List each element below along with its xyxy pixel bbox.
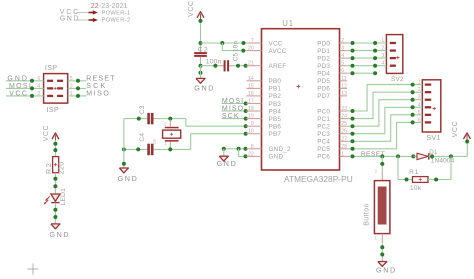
wire VCC to R2 bbox=[54, 140, 56, 156]
junction bbox=[430, 154, 434, 158]
wire button to GND bbox=[381, 243, 383, 261]
svg-text:MOSI: MOSI bbox=[222, 98, 244, 105]
junction bbox=[199, 19, 203, 23]
junction bbox=[53, 184, 57, 188]
wire down to ground bbox=[223, 149, 225, 156]
junction bbox=[411, 90, 415, 94]
svg-text:28: 28 bbox=[341, 144, 347, 150]
svg-text:7: 7 bbox=[251, 38, 254, 44]
pin 22 GND bbox=[246, 155, 261, 157]
junction bbox=[380, 245, 384, 249]
junction bbox=[411, 83, 415, 87]
wire jog to pin 9 bbox=[186, 119, 247, 127]
wire PC2 to SV1 pin 3 bbox=[347, 100, 422, 127]
SV2 pad 4 bbox=[390, 65, 396, 67]
capacitor C2 bbox=[200, 49, 202, 53]
svg-text:2: 2 bbox=[381, 46, 384, 52]
svg-text:SV1: SV1 bbox=[426, 135, 441, 142]
ISP pad left row 3 bbox=[47, 95, 53, 97]
svg-text:24: 24 bbox=[341, 114, 347, 120]
svg-text:PD0: PD0 bbox=[317, 40, 330, 47]
wire jog to pin 10 bbox=[191, 134, 247, 150]
svg-text:22p: 22p bbox=[153, 139, 157, 145]
wire PC1 to SV1 pin 2 bbox=[347, 92, 422, 118]
svg-text:1: 1 bbox=[70, 91, 73, 97]
svg-text:10n: 10n bbox=[232, 41, 239, 52]
wire ISP right MISO bbox=[68, 95, 86, 97]
svg-text:6: 6 bbox=[37, 76, 40, 82]
junction bbox=[213, 64, 217, 68]
svg-text:3: 3 bbox=[418, 95, 421, 101]
svg-text:5: 5 bbox=[341, 61, 344, 67]
svg-text:9: 9 bbox=[251, 121, 254, 127]
svg-text:PD1: PD1 bbox=[317, 48, 330, 55]
wire SCK to chip bbox=[222, 118, 247, 120]
wire RESET to button bbox=[381, 156, 383, 171]
resistor R1 bbox=[413, 177, 429, 183]
junction bbox=[53, 177, 57, 181]
wire crystal bottom row bbox=[124, 148, 147, 150]
capacitor C5 bbox=[219, 65, 224, 67]
junction bbox=[373, 64, 377, 68]
connector ISP box bbox=[44, 74, 68, 104]
svg-text:PB3: PB3 bbox=[269, 101, 282, 108]
svg-text:5: 5 bbox=[70, 76, 73, 82]
svg-text:AVCC: AVCC bbox=[269, 48, 287, 55]
power flag POWER-1 bbox=[93, 10, 98, 14]
wire crystal top to crystal bbox=[166, 118, 186, 120]
wire PC3 to SV1 pin 4 bbox=[347, 107, 422, 133]
svg-text:27: 27 bbox=[341, 136, 347, 142]
junction bbox=[53, 208, 57, 212]
svg-text:12: 12 bbox=[341, 83, 347, 89]
svg-text:AREF: AREF bbox=[269, 63, 287, 70]
svg-text:2: 2 bbox=[418, 87, 421, 93]
junction bbox=[411, 105, 415, 109]
wire ISP left MOSI bbox=[6, 87, 44, 89]
svg-text:GND: GND bbox=[194, 84, 215, 93]
junction bbox=[237, 147, 241, 151]
svg-text:4: 4 bbox=[418, 102, 421, 108]
svg-text:PB1: PB1 bbox=[269, 86, 282, 93]
SV1 pad 4 bbox=[425, 106, 431, 108]
junction bbox=[373, 56, 377, 60]
svg-text:POWER-1: POWER-1 bbox=[102, 11, 131, 17]
junction bbox=[236, 64, 240, 68]
ISP pad right row 2 bbox=[57, 87, 63, 89]
junction bbox=[136, 147, 140, 151]
wire R2 to LED1 bbox=[54, 173, 56, 194]
svg-text:VCC: VCC bbox=[188, 0, 195, 17]
svg-text:PB2: PB2 bbox=[269, 93, 282, 100]
junction bbox=[244, 132, 248, 136]
junction bbox=[351, 117, 355, 121]
svg-text:PD7: PD7 bbox=[317, 93, 330, 100]
svg-text:1: 1 bbox=[341, 151, 344, 157]
pin 17 PB3 bbox=[246, 103, 261, 105]
pin 18 PB4 bbox=[246, 110, 261, 112]
wire LED1 to GND bbox=[54, 203, 56, 224]
wire ISP left GND bbox=[6, 80, 44, 82]
power symbol VCC (decoupling) bbox=[197, 12, 204, 18]
junction bbox=[199, 71, 203, 75]
wire PD4 stub bbox=[347, 72, 376, 74]
svg-text:VCC: VCC bbox=[269, 40, 283, 47]
junction bbox=[53, 148, 57, 152]
svg-text:PC0: PC0 bbox=[317, 108, 330, 115]
junction bbox=[244, 154, 248, 158]
junction bbox=[244, 64, 248, 68]
SV2 origin cross bbox=[396, 57, 399, 59]
pin 28 PC5 bbox=[340, 148, 348, 150]
ground (decoupling) bbox=[196, 78, 205, 83]
svg-text:100n: 100n bbox=[206, 58, 222, 65]
wire GND pin jog bbox=[239, 149, 247, 157]
SV2 pad 2 bbox=[390, 49, 396, 51]
pin 26 PC3 bbox=[340, 133, 348, 135]
svg-text:22: 22 bbox=[248, 151, 254, 157]
pin 14 PB0 bbox=[246, 80, 261, 82]
junction bbox=[244, 117, 248, 121]
svg-text:4: 4 bbox=[341, 53, 344, 59]
svg-text:GND: GND bbox=[217, 159, 238, 168]
sheet origin cross bbox=[28, 268, 39, 270]
pin 5 PD3 bbox=[340, 65, 348, 67]
junction bbox=[405, 178, 409, 182]
wire PD2 to SV2 pin 3 bbox=[347, 57, 386, 59]
pin 11 PD5 bbox=[340, 80, 348, 82]
svg-text:8: 8 bbox=[251, 144, 254, 150]
svg-text:Button: Button bbox=[364, 203, 371, 226]
button pin 2 stub bbox=[381, 172, 383, 181]
svg-text:SCK: SCK bbox=[86, 83, 107, 90]
junction bbox=[122, 147, 126, 151]
svg-text:PB4: PB4 bbox=[269, 108, 282, 115]
svg-text:PD2: PD2 bbox=[317, 55, 330, 62]
ISP origin cross bbox=[54, 87, 57, 89]
junction bbox=[351, 71, 355, 75]
wire ISP right SCK bbox=[68, 87, 86, 89]
SV1 origin cross bbox=[433, 108, 436, 110]
IC origin cross bbox=[297, 86, 301, 88]
svg-text:VCC: VCC bbox=[452, 121, 459, 138]
svg-text:6: 6 bbox=[341, 68, 344, 74]
pin 10 PB7 bbox=[246, 133, 261, 135]
svg-text:PD5: PD5 bbox=[317, 78, 330, 85]
svg-text:PC1: PC1 bbox=[317, 116, 330, 123]
svg-text:ISP: ISP bbox=[47, 105, 60, 114]
svg-text:18: 18 bbox=[248, 106, 254, 112]
junction AREF row bbox=[199, 64, 203, 68]
junction bbox=[53, 142, 57, 146]
svg-text:4: 4 bbox=[37, 83, 40, 89]
svg-text:SV2: SV2 bbox=[391, 76, 404, 83]
svg-text:PD4: PD4 bbox=[317, 71, 330, 78]
svg-text:C4: C4 bbox=[139, 133, 146, 142]
power flag POWER-2 bbox=[93, 18, 98, 22]
wire ISP left VCC bbox=[6, 95, 44, 97]
junction bbox=[351, 154, 355, 158]
svg-text:5: 5 bbox=[418, 110, 421, 116]
wire C2 to GND bbox=[200, 66, 202, 78]
diode D1 bbox=[413, 155, 417, 157]
SV1 pad 5 bbox=[425, 114, 431, 116]
junction bbox=[351, 132, 355, 136]
SV1 pad 3 bbox=[425, 99, 431, 101]
svg-text:MOSI: MOSI bbox=[9, 83, 32, 90]
wire VCC row to pin 7 bbox=[201, 42, 247, 44]
wire RESET net bbox=[347, 155, 413, 157]
svg-text:C5: C5 bbox=[232, 52, 239, 61]
ground (button) bbox=[378, 262, 387, 267]
svg-text:PC6: PC6 bbox=[317, 154, 330, 161]
svg-text:GND: GND bbox=[7, 75, 29, 82]
wire branch to AVCC pin 20 bbox=[222, 43, 246, 51]
wire GND_2 net bbox=[224, 148, 247, 150]
junction on RESET wire bbox=[76, 79, 80, 83]
wire R1 branch bbox=[398, 156, 413, 179]
svg-text:SCK: SCK bbox=[222, 113, 240, 120]
junction button branch bbox=[380, 154, 384, 158]
svg-text:3: 3 bbox=[341, 46, 344, 52]
resistor R2 bbox=[53, 157, 59, 173]
junction bbox=[380, 162, 384, 166]
svg-text:GND: GND bbox=[269, 154, 284, 161]
svg-text:3: 3 bbox=[381, 53, 384, 59]
svg-text:6: 6 bbox=[418, 117, 421, 123]
wire crystal top row bbox=[124, 118, 147, 120]
ISP pad right row 1 bbox=[57, 80, 63, 82]
svg-text:R1: R1 bbox=[409, 169, 419, 176]
svg-text:4: 4 bbox=[381, 61, 384, 67]
svg-text:25: 25 bbox=[341, 121, 347, 127]
pin 25 PC2 bbox=[340, 125, 348, 127]
svg-text:11: 11 bbox=[341, 76, 346, 82]
pin 13 PD7 bbox=[340, 95, 348, 97]
junction bbox=[351, 41, 355, 45]
junction bbox=[411, 98, 415, 102]
connector SV2 box bbox=[386, 35, 402, 74]
junction bbox=[351, 64, 355, 68]
svg-text:D1: D1 bbox=[429, 149, 438, 156]
connector SV1 box bbox=[422, 80, 441, 132]
svg-text:23: 23 bbox=[341, 106, 347, 112]
junction bbox=[137, 117, 141, 121]
power symbol VCC (LED branch) bbox=[52, 133, 59, 139]
svg-text:17: 17 bbox=[248, 99, 254, 105]
pin 7 VCC bbox=[246, 42, 261, 44]
svg-text:PB6: PB6 bbox=[269, 124, 282, 131]
wire GND to POWER-2 bbox=[76, 19, 89, 21]
wire left column to GND bbox=[123, 119, 125, 164]
LED LED1 bbox=[51, 194, 60, 201]
junction crystal bottom bbox=[168, 147, 172, 151]
junction VCC row bbox=[199, 41, 203, 45]
svg-text:GND: GND bbox=[376, 265, 397, 274]
pin 19 PB5 bbox=[246, 118, 261, 120]
wire PD0 to SV2 pin 1 bbox=[347, 42, 386, 44]
wire MISO to chip bbox=[222, 110, 247, 112]
ISP pad left row 1 bbox=[47, 80, 53, 82]
wire PC0 to SV1 pin 1 bbox=[347, 85, 422, 111]
svg-text:PC3: PC3 bbox=[317, 131, 330, 138]
junction bbox=[411, 120, 415, 124]
junction bbox=[449, 154, 453, 158]
pin 24 PC1 bbox=[340, 118, 348, 120]
junction bbox=[241, 49, 245, 53]
wire up to VCC bbox=[466, 140, 468, 157]
junction diode anode bbox=[411, 154, 415, 158]
junction bbox=[351, 49, 355, 53]
junction bbox=[122, 162, 126, 166]
pin 23 PC0 bbox=[340, 110, 348, 112]
power symbol VCC (reset) bbox=[464, 133, 471, 139]
svg-text:R2: R2 bbox=[46, 162, 53, 174]
svg-text:C3: C3 bbox=[139, 105, 146, 114]
svg-text:3: 3 bbox=[70, 83, 73, 89]
junction bbox=[351, 139, 355, 143]
junction bbox=[434, 178, 438, 182]
svg-text:RESET: RESET bbox=[86, 75, 116, 82]
pin 9 PB6 bbox=[246, 125, 261, 127]
pin 2 PD0 bbox=[340, 42, 348, 44]
svg-text:POWER-2: POWER-2 bbox=[102, 18, 131, 24]
svg-text:21: 21 bbox=[248, 61, 254, 67]
wire diode to VCC corner bbox=[429, 155, 468, 157]
svg-text:U1: U1 bbox=[282, 19, 294, 28]
capacitor C4 bbox=[147, 144, 150, 156]
svg-text:PB5: PB5 bbox=[269, 116, 282, 123]
SV2 pad 3 bbox=[390, 57, 396, 59]
svg-text:15: 15 bbox=[248, 83, 254, 89]
pin 16 PB2 bbox=[246, 95, 261, 97]
svg-text:GND: GND bbox=[118, 174, 139, 183]
svg-text:1: 1 bbox=[381, 38, 384, 44]
junction bbox=[242, 41, 246, 45]
junction bbox=[411, 113, 415, 117]
svg-text:2: 2 bbox=[37, 91, 40, 97]
junction bbox=[465, 140, 469, 144]
junction on VCC wire bbox=[30, 94, 34, 98]
svg-text:10k: 10k bbox=[410, 185, 422, 192]
svg-text:PB7: PB7 bbox=[269, 131, 282, 138]
junction bbox=[351, 124, 355, 128]
pin 20 AVCC bbox=[246, 50, 261, 52]
svg-text:PD6: PD6 bbox=[317, 86, 330, 93]
capacitor C3 bbox=[147, 113, 150, 124]
pin 27 PC4 bbox=[340, 140, 348, 142]
svg-text:PB0: PB0 bbox=[269, 78, 282, 85]
wire PD3 to SV2 pin 4 bbox=[347, 65, 386, 67]
svg-text:26: 26 bbox=[341, 129, 347, 135]
svg-text:PC5: PC5 bbox=[317, 146, 330, 153]
wire VCC to POWER-1 bbox=[77, 12, 90, 14]
pin 1 PC6 bbox=[340, 155, 348, 157]
wire AREF row to pin 21 bbox=[201, 65, 219, 67]
wire PC4 to SV1 pin 5 bbox=[347, 115, 422, 142]
svg-text:LED1: LED1 bbox=[60, 188, 67, 206]
wire ISP right RESET bbox=[68, 80, 86, 82]
junction R1 branch bbox=[396, 154, 400, 158]
junction bbox=[244, 102, 248, 106]
svg-text:13: 13 bbox=[341, 91, 347, 97]
junction on GND wire bbox=[30, 79, 34, 83]
SV1 pad 6 bbox=[425, 121, 431, 123]
junction crystal top bbox=[168, 117, 172, 121]
ground (crystal) bbox=[119, 168, 128, 173]
junction bbox=[373, 71, 377, 75]
svg-text:22-23-2021: 22-23-2021 bbox=[91, 3, 128, 10]
svg-text:GND_2: GND_2 bbox=[269, 146, 291, 153]
junction bbox=[53, 215, 57, 219]
svg-text:PC2: PC2 bbox=[317, 124, 330, 131]
junction bbox=[220, 41, 224, 45]
svg-text:2: 2 bbox=[341, 38, 344, 44]
pin 21 AREF bbox=[246, 65, 261, 67]
junction bbox=[373, 49, 377, 53]
junction bbox=[222, 147, 226, 151]
svg-text:GND: GND bbox=[49, 230, 70, 239]
junction bbox=[380, 253, 384, 257]
junction bbox=[244, 109, 248, 113]
svg-text:220: 220 bbox=[59, 161, 66, 174]
junction on SCK wire bbox=[76, 86, 80, 90]
SV1 pad 1 bbox=[425, 83, 431, 85]
junction bbox=[351, 109, 355, 113]
svg-text:19: 19 bbox=[248, 114, 254, 120]
svg-text:MISO: MISO bbox=[86, 91, 110, 98]
svg-text:PC4: PC4 bbox=[317, 139, 330, 146]
junction bbox=[351, 147, 355, 151]
ISP pad right row 3 bbox=[57, 95, 63, 97]
crystal Q1 bbox=[169, 120, 171, 127]
junction bbox=[244, 124, 248, 128]
junction bbox=[373, 41, 377, 45]
SV2 pad 1 bbox=[390, 42, 396, 44]
pin 3 PD1 bbox=[340, 50, 348, 52]
wire C2 to AREF row bbox=[200, 60, 202, 66]
junction bbox=[244, 147, 248, 151]
ground (LED branch) bbox=[51, 224, 60, 229]
junction on MISO wire bbox=[76, 94, 80, 98]
svg-text:14: 14 bbox=[248, 76, 254, 82]
pin 8 GND_2 bbox=[246, 148, 261, 150]
svg-text:PD3: PD3 bbox=[317, 63, 330, 70]
svg-text:10: 10 bbox=[248, 129, 254, 135]
wire PD1 to SV2 pin 2 bbox=[347, 50, 386, 52]
button pin 1 stub bbox=[381, 234, 383, 244]
svg-text:ISP: ISP bbox=[45, 63, 58, 72]
wire VCC down to C2 bbox=[200, 19, 202, 50]
junction on MOSI wire bbox=[30, 86, 34, 90]
svg-text:C2: C2 bbox=[198, 46, 209, 53]
IC U1 body bbox=[262, 29, 340, 170]
SV1 pad 2 bbox=[425, 91, 431, 93]
wire MOSI to chip bbox=[222, 103, 247, 105]
svg-text:MISO: MISO bbox=[222, 106, 244, 113]
junction bbox=[351, 56, 355, 60]
svg-text:GND: GND bbox=[60, 15, 80, 22]
svg-text:16: 16 bbox=[248, 91, 254, 97]
pin 15 PB1 bbox=[246, 87, 261, 89]
svg-text:VCC: VCC bbox=[9, 91, 28, 98]
svg-text:1: 1 bbox=[418, 80, 421, 86]
ISP pad left row 2 bbox=[47, 87, 53, 89]
ground (chip) bbox=[219, 156, 228, 161]
svg-text:ATMEGA328P-PU: ATMEGA328P-PU bbox=[284, 174, 353, 184]
svg-text:VCC: VCC bbox=[43, 125, 50, 142]
wire R1 to VCC leg bbox=[428, 156, 451, 179]
